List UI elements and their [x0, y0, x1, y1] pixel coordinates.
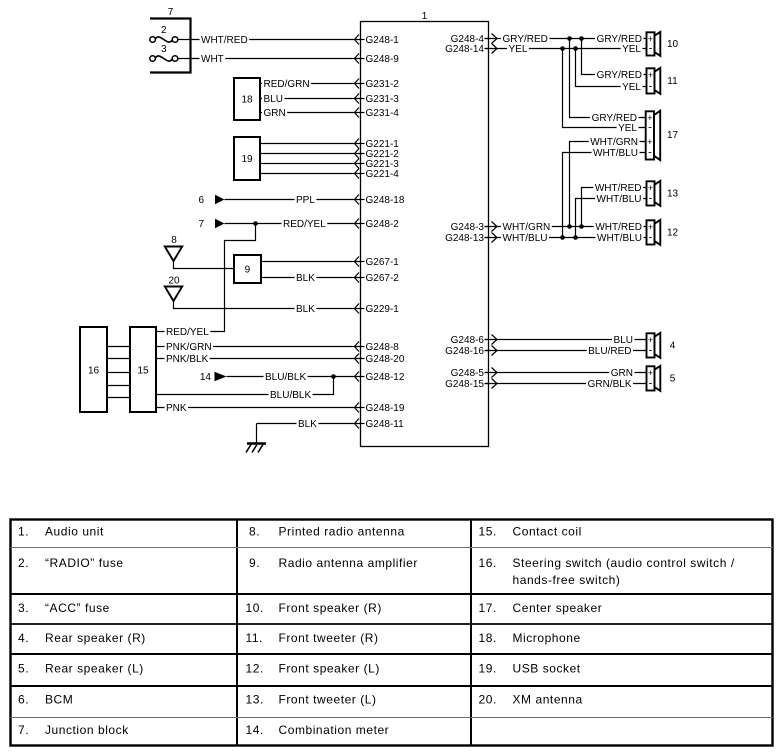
svg-text:G248-16: G248-16	[445, 346, 484, 357]
svg-text:WHT/RED: WHT/RED	[595, 222, 642, 233]
svg-text:10.: 10.	[246, 601, 264, 615]
svg-text:hands-free switch): hands-free switch)	[513, 573, 621, 587]
svg-text:G248-2: G248-2	[366, 219, 400, 230]
svg-text:Microphone: Microphone	[513, 631, 581, 645]
svg-text:Rear speaker (R): Rear speaker (R)	[45, 631, 146, 645]
svg-text:17: 17	[667, 130, 679, 141]
svg-text:11.: 11.	[246, 631, 263, 645]
svg-text:16: 16	[88, 366, 100, 377]
svg-text:G248-18: G248-18	[366, 195, 405, 206]
svg-text:RED/GRN: RED/GRN	[264, 79, 310, 90]
svg-text:WHT: WHT	[201, 54, 224, 65]
svg-text:9.: 9.	[249, 556, 260, 570]
svg-text:PNK/BLK: PNK/BLK	[166, 354, 209, 365]
svg-text:G248-9: G248-9	[366, 54, 400, 65]
svg-text:Front tweeter (L): Front tweeter (L)	[279, 693, 377, 707]
svg-text:Junction block: Junction block	[45, 723, 129, 737]
svg-text:RED/YEL: RED/YEL	[166, 327, 209, 338]
svg-text:G267-2: G267-2	[366, 273, 400, 284]
svg-text:G231-3: G231-3	[366, 94, 400, 105]
svg-text:XM antenna: XM antenna	[513, 693, 583, 707]
svg-text:2: 2	[161, 25, 167, 36]
svg-text:G248-1: G248-1	[366, 35, 400, 46]
svg-text:WHT/RED: WHT/RED	[201, 35, 248, 46]
svg-text:17.: 17.	[479, 601, 497, 615]
svg-text:Front speaker (L): Front speaker (L)	[279, 662, 380, 676]
svg-text:BLU/RED: BLU/RED	[588, 346, 631, 357]
svg-text:G248-20: G248-20	[366, 354, 405, 365]
svg-text:YEL: YEL	[618, 123, 637, 134]
svg-text:G231-2: G231-2	[366, 79, 400, 90]
svg-text:GRY/RED: GRY/RED	[597, 70, 642, 81]
svg-text:USB socket: USB socket	[513, 662, 581, 676]
svg-text:+: +	[648, 70, 653, 80]
svg-text:6.: 6.	[18, 693, 29, 707]
svg-text:PNK: PNK	[166, 403, 187, 414]
svg-text:YEL: YEL	[509, 44, 528, 55]
svg-text:G248-13: G248-13	[445, 233, 484, 244]
svg-text:11: 11	[667, 76, 678, 87]
svg-text:G248-15: G248-15	[445, 379, 484, 390]
svg-text:12: 12	[667, 228, 679, 239]
svg-text:14.: 14.	[246, 723, 264, 737]
svg-text:3: 3	[161, 44, 167, 55]
svg-text:WHT/BLU: WHT/BLU	[597, 194, 642, 205]
svg-text:Combination meter: Combination meter	[279, 723, 390, 737]
svg-text:2.: 2.	[18, 556, 29, 570]
svg-text:1: 1	[422, 11, 428, 22]
svg-text:+: +	[648, 222, 653, 232]
svg-text:G221-4: G221-4	[366, 169, 400, 180]
svg-text:-: -	[649, 232, 653, 244]
svg-text:WHT/BLU: WHT/BLU	[503, 233, 548, 244]
svg-text:Printed radio antenna: Printed radio antenna	[279, 525, 405, 539]
svg-text:G248-19: G248-19	[366, 403, 405, 414]
svg-text:-: -	[649, 193, 653, 205]
svg-text:18: 18	[241, 95, 253, 106]
svg-text:Center speaker: Center speaker	[513, 601, 603, 615]
svg-text:6: 6	[198, 195, 204, 206]
svg-text:20.: 20.	[479, 693, 497, 707]
svg-text:-: -	[649, 81, 653, 93]
svg-text:+: +	[647, 137, 652, 147]
svg-text:15.: 15.	[479, 525, 497, 539]
svg-text:G248-11: G248-11	[366, 419, 405, 430]
svg-text:8: 8	[171, 235, 177, 246]
svg-text:7: 7	[168, 7, 174, 18]
svg-text:RED/YEL: RED/YEL	[283, 219, 326, 230]
svg-text:G248-3: G248-3	[451, 222, 485, 233]
svg-text:PNK/GRN: PNK/GRN	[166, 342, 212, 353]
svg-text:Radio antenna amplifier: Radio antenna amplifier	[279, 556, 418, 570]
svg-text:Front speaker (R): Front speaker (R)	[279, 601, 382, 615]
svg-text:5.: 5.	[18, 662, 29, 676]
svg-text:-: -	[648, 147, 652, 159]
svg-text:BLK: BLK	[298, 419, 317, 430]
svg-text:-: -	[649, 345, 653, 357]
svg-text:Rear speaker (L): Rear speaker (L)	[45, 662, 144, 676]
svg-text:GRN: GRN	[264, 108, 286, 119]
svg-text:4: 4	[670, 341, 676, 352]
svg-text:YEL: YEL	[622, 82, 641, 93]
svg-text:BLU/BLK: BLU/BLK	[265, 372, 306, 383]
svg-text:G248-8: G248-8	[366, 342, 400, 353]
svg-text:BCM: BCM	[45, 693, 73, 707]
svg-text:13.: 13.	[246, 693, 264, 707]
svg-text:Audio unit: Audio unit	[45, 525, 104, 539]
svg-text:14: 14	[200, 372, 212, 383]
svg-text:“ACC” fuse: “ACC” fuse	[45, 601, 110, 615]
svg-text:Steering switch (audio control: Steering switch (audio control switch /	[513, 556, 735, 570]
svg-text:-: -	[649, 378, 653, 390]
svg-text:5: 5	[670, 374, 676, 385]
svg-text:20: 20	[168, 275, 180, 286]
svg-text:12.: 12.	[246, 662, 264, 676]
svg-text:PPL: PPL	[296, 195, 315, 206]
svg-text:G229-1: G229-1	[366, 304, 400, 315]
svg-text:7: 7	[198, 219, 204, 230]
svg-text:7.: 7.	[18, 723, 29, 737]
svg-text:WHT/GRN: WHT/GRN	[503, 222, 551, 233]
svg-text:GRN: GRN	[611, 368, 633, 379]
svg-text:+: +	[648, 368, 653, 378]
svg-text:WHT/BLU: WHT/BLU	[593, 148, 638, 159]
svg-text:BLU: BLU	[264, 94, 283, 105]
svg-text:BLK: BLK	[296, 304, 315, 315]
svg-text:G248-12: G248-12	[366, 372, 405, 383]
svg-text:+: +	[648, 183, 653, 193]
svg-text:4.: 4.	[18, 631, 29, 645]
svg-text:WHT/GRN: WHT/GRN	[590, 137, 638, 148]
svg-text:WHT/BLU: WHT/BLU	[597, 233, 642, 244]
svg-text:G231-4: G231-4	[366, 108, 400, 119]
svg-text:10: 10	[667, 39, 679, 50]
svg-text:-: -	[648, 122, 652, 134]
svg-text:YEL: YEL	[622, 44, 641, 55]
svg-text:13: 13	[667, 189, 679, 200]
svg-text:19.: 19.	[479, 662, 497, 676]
svg-text:16.: 16.	[479, 556, 497, 570]
svg-text:3.: 3.	[18, 601, 29, 615]
svg-text:WHT/RED: WHT/RED	[595, 183, 642, 194]
svg-text:G248-5: G248-5	[451, 368, 485, 379]
svg-text:G248-14: G248-14	[445, 44, 484, 55]
svg-text:-: -	[649, 43, 653, 55]
svg-text:“RADIO” fuse: “RADIO” fuse	[45, 556, 124, 570]
svg-text:G267-1: G267-1	[366, 257, 400, 268]
svg-text:18.: 18.	[479, 631, 497, 645]
svg-text:15: 15	[137, 366, 149, 377]
svg-text:GRN/BLK: GRN/BLK	[588, 379, 632, 390]
svg-text:19: 19	[241, 154, 253, 165]
svg-text:G248-6: G248-6	[451, 335, 485, 346]
svg-text:1.: 1.	[18, 525, 29, 539]
svg-text:+: +	[648, 335, 653, 345]
svg-text:BLU: BLU	[614, 335, 633, 346]
svg-text:Front tweeter (R): Front tweeter (R)	[279, 631, 379, 645]
svg-text:8.: 8.	[249, 525, 260, 539]
svg-text:9: 9	[245, 265, 251, 276]
svg-text:BLU/BLK: BLU/BLK	[270, 390, 311, 401]
svg-text:Contact coil: Contact coil	[513, 525, 582, 539]
svg-text:BLK: BLK	[296, 273, 315, 284]
